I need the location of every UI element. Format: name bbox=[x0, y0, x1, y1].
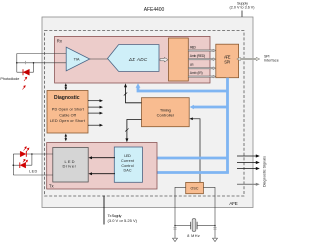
blue branch to DAC lower bbox=[143, 170, 228, 175]
Timing Controller block bbox=[142, 98, 190, 127]
svg-text:SPI: SPI bbox=[224, 60, 230, 65]
chip outline AFE4400 bbox=[42, 17, 253, 208]
blue branch to DAC upper bbox=[143, 156, 228, 161]
wire TC to Tx bbox=[125, 120, 141, 143]
LED junction nodes bbox=[13, 153, 33, 166]
svg-text:Rx: Rx bbox=[57, 39, 63, 44]
crystal wires bbox=[175, 187, 215, 238]
Diagnostic block bbox=[47, 91, 88, 134]
LED D3 bbox=[20, 162, 26, 168]
svg-text:LED: LED bbox=[124, 154, 131, 158]
LED emission arrows bbox=[23, 147, 29, 163]
svg-text:(2.0 V to 3.6 V): (2.0 V to 3.6 V) bbox=[230, 6, 255, 10]
photodiode D1 bbox=[23, 69, 29, 75]
Tx supply label bbox=[108, 213, 138, 223]
bus Amb (RED) bbox=[188, 54, 216, 60]
diagnostic signal arrow 3 bbox=[237, 167, 260, 170]
junction node left bbox=[174, 225, 175, 226]
LED wires bbox=[13, 154, 53, 175]
svg-text:AFE: AFE bbox=[229, 201, 238, 206]
svg-text:Cable Off: Cable Off bbox=[59, 113, 76, 117]
SPI interface arrow bbox=[237, 57, 260, 60]
svg-text:(3.0 V or 5.25 V): (3.0 V or 5.25 V) bbox=[108, 218, 138, 223]
svg-text:PD Open or Short: PD Open or Short bbox=[52, 108, 85, 112]
diag output arrow 4 bbox=[88, 124, 103, 127]
diag output arrow 3 bbox=[88, 112, 103, 115]
wire TIA to ADC bbox=[90, 58, 108, 60]
load capacitor C1 bbox=[173, 228, 176, 229]
svg-text:DAC: DAC bbox=[124, 169, 132, 173]
buffer block bbox=[169, 38, 189, 81]
LED D2 bbox=[20, 151, 26, 157]
svg-text:8 MHz: 8 MHz bbox=[187, 234, 200, 238]
arrow ADC to buffer bbox=[160, 57, 168, 62]
diagnostic signal arrow 1 bbox=[237, 154, 260, 157]
Rx block bbox=[55, 36, 210, 83]
svg-text:Diagnostic Signals: Diagnostic Signals bbox=[263, 156, 267, 187]
crystal X1 bbox=[191, 219, 197, 232]
bus RED bbox=[188, 45, 216, 52]
LED Current Control DAC block bbox=[114, 147, 142, 182]
Tx block bbox=[47, 143, 157, 190]
blue branch to Rx bbox=[136, 83, 228, 91]
SPI interface label bbox=[264, 54, 279, 62]
junction node right bbox=[214, 225, 215, 226]
photodiode wires bbox=[17, 54, 66, 73]
load capacitor C2 bbox=[213, 228, 216, 229]
OSC block bbox=[186, 182, 204, 193]
wire OSC to TC bbox=[189, 117, 200, 182]
svg-text:Interface: Interface bbox=[264, 59, 279, 63]
arrow DAC to driver upper bbox=[88, 156, 115, 159]
svg-text:Control: Control bbox=[121, 164, 133, 168]
svg-text:OSC: OSC bbox=[191, 187, 199, 191]
link Diagnostic-Tx bbox=[65, 134, 68, 142]
photodiode junction nodes bbox=[16, 62, 34, 64]
svg-text:LED Open or Short: LED Open or Short bbox=[50, 119, 86, 123]
TIA U1 bbox=[66, 47, 90, 71]
svg-text:Amb (RED): Amb (RED) bbox=[190, 54, 205, 58]
wire TC to Rx bbox=[124, 83, 142, 102]
svg-text:Amb (IR): Amb (IR) bbox=[190, 71, 203, 75]
LED Driver block bbox=[53, 148, 88, 183]
svg-text:Diagnostic: Diagnostic bbox=[54, 95, 80, 101]
svg-text:ΔΣ ADC: ΔΣ ADC bbox=[128, 57, 148, 62]
svg-text:LED: LED bbox=[29, 169, 37, 173]
svg-text:Controller: Controller bbox=[157, 113, 175, 118]
link Rx-Diagnostic bbox=[65, 83, 68, 90]
supply wire bbox=[241, 11, 243, 18]
data ready arrow bbox=[237, 183, 260, 186]
svg-text:Driver: Driver bbox=[62, 163, 76, 168]
Tx supply wire bbox=[103, 196, 105, 225]
diagnostic signal arrow 2 bbox=[237, 161, 260, 164]
bus IR bbox=[188, 63, 216, 70]
AFE SPI block bbox=[216, 44, 239, 77]
svg-text:IR: IR bbox=[190, 63, 194, 67]
diag output arrow 1 bbox=[88, 99, 103, 102]
svg-text:RED: RED bbox=[190, 45, 197, 49]
supply label bbox=[230, 1, 255, 9]
delta-sigma ADC bbox=[108, 45, 160, 72]
svg-text:Current: Current bbox=[121, 159, 134, 163]
bus Amb (IR) bbox=[188, 71, 216, 78]
arrow DAC to driver lower bbox=[88, 172, 115, 175]
photodiode light arrows bbox=[23, 77, 27, 89]
AFE dashed boundary bbox=[45, 31, 245, 197]
svg-text:AFE4400: AFE4400 bbox=[144, 7, 165, 13]
ground left bbox=[173, 238, 178, 241]
svg-text:TIA: TIA bbox=[74, 57, 80, 62]
ground right bbox=[213, 238, 218, 241]
svg-text:Photodiode: Photodiode bbox=[0, 77, 19, 81]
blue bus trunk bbox=[226, 78, 229, 173]
blue branch to Timing Controller bbox=[190, 105, 228, 110]
diag output arrow 2 bbox=[88, 106, 103, 109]
